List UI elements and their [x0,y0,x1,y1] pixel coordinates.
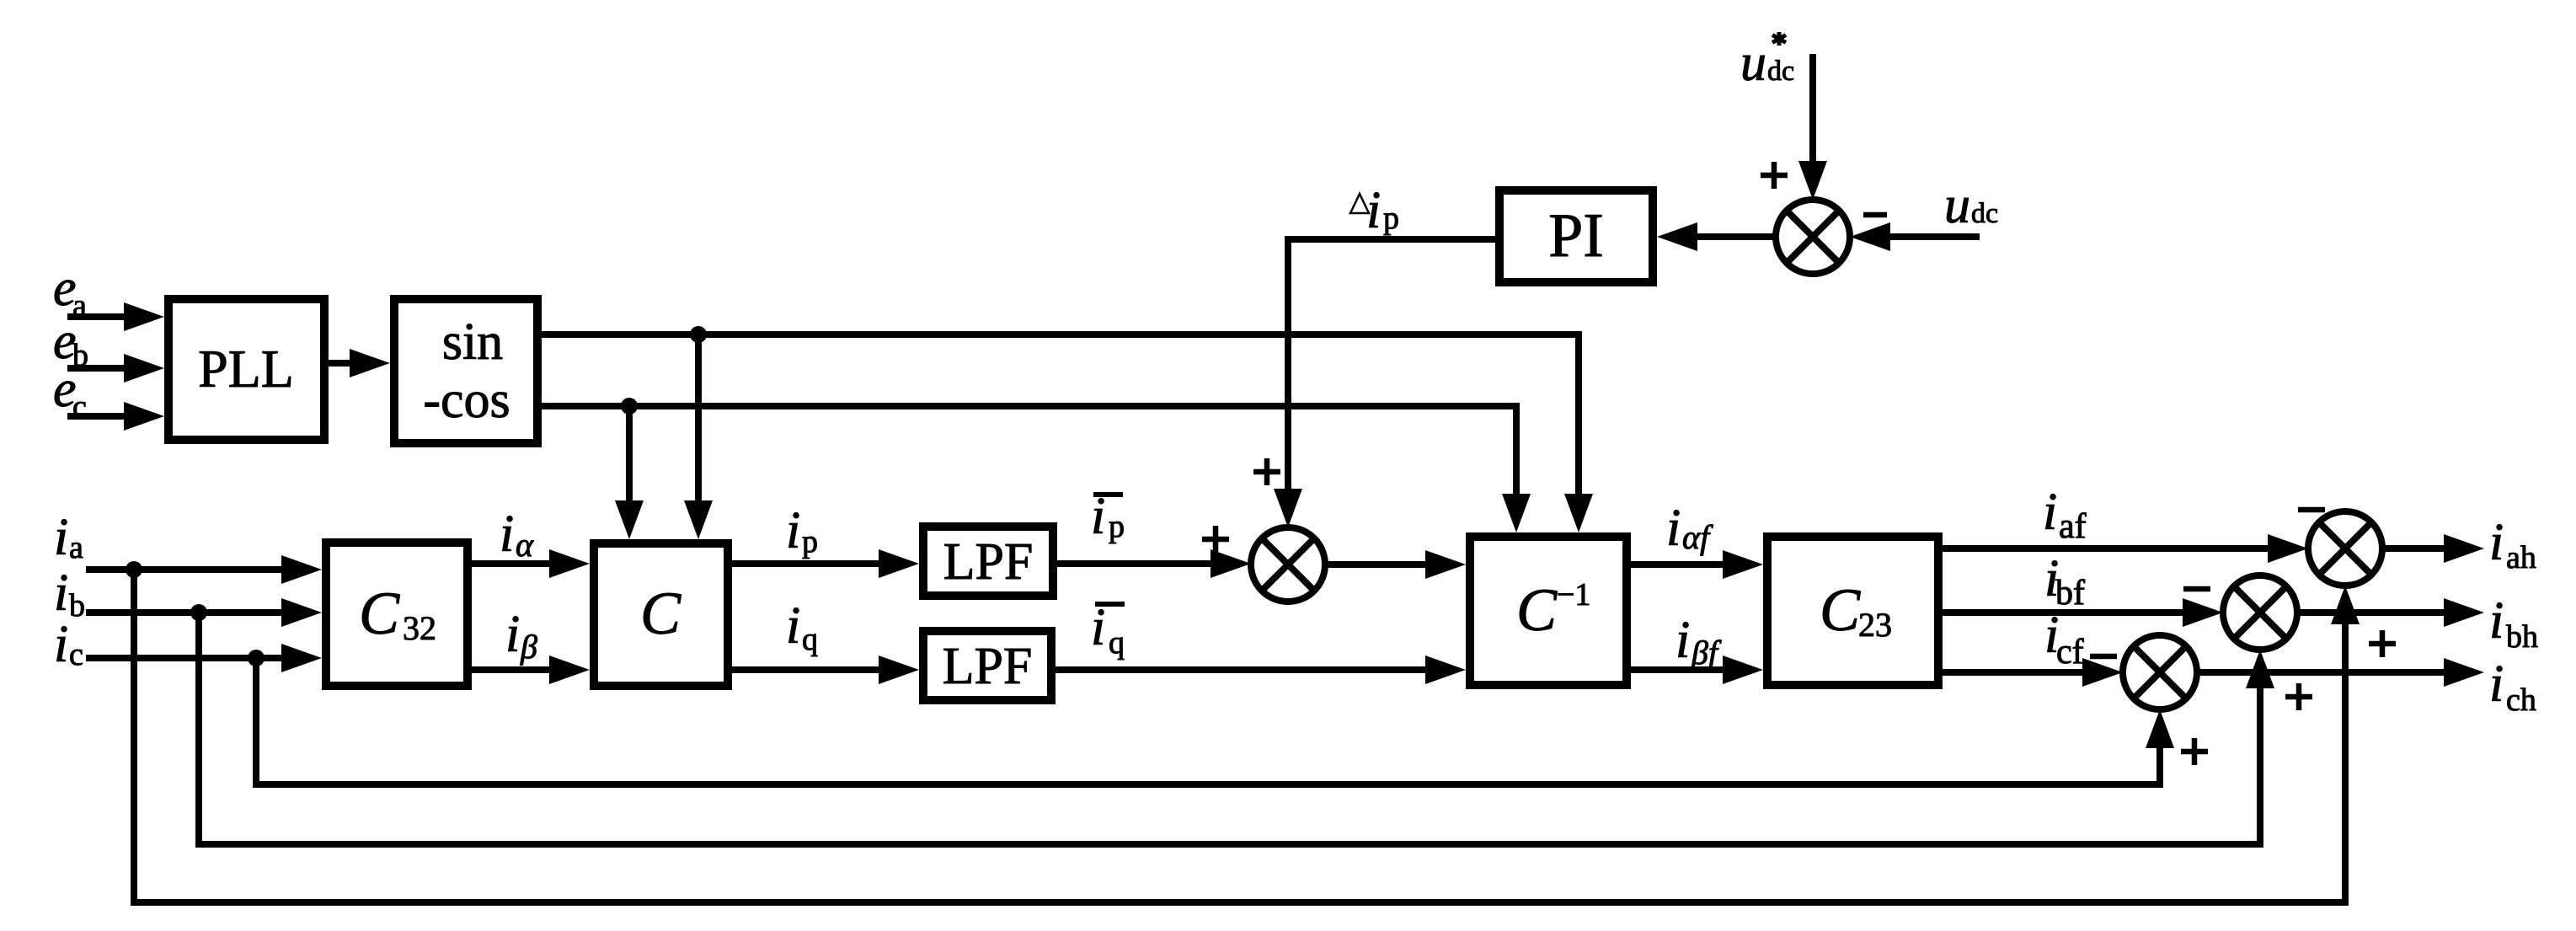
node ec label [53,361,87,425]
wire iq-bar to C-inv [1056,655,1466,684]
minus sign mixer ch [2090,654,2117,660]
wire i-alpha [472,549,590,578]
svg-text:PI: PI [1548,201,1604,270]
svg-text:αf: αf [1682,518,1713,556]
svg-text:b: b [69,588,85,623]
svg-text:-cos: -cos [423,372,510,429]
node iah label [2489,514,2536,575]
svg-text:β: β [520,628,537,666]
svg-text:p: p [1383,201,1399,236]
svg-text:i: i [54,509,68,566]
wire sin drop to C [684,334,713,539]
node iaf label [2043,484,2087,546]
wire icf to mixer ch [1943,658,2123,687]
summing junction mixer bh [2223,575,2297,650]
wire cos drop to C [615,406,644,539]
node ia label [54,509,83,566]
wire i-alpha-f [1631,550,1763,579]
wire PLL to sin-cos [329,349,390,377]
wire ic input [86,644,322,672]
svg-text:LPF: LPF [943,533,1034,591]
wire iah output [2382,534,2484,563]
svg-text:C: C [359,580,400,647]
svg-text:−1: −1 [1557,577,1590,613]
svg-text:p: p [802,524,818,559]
wire ip [732,549,919,578]
wire ia feedback loop [134,570,2360,902]
wire udc-ref drop [1798,54,1827,200]
wire ic feedback loop [256,658,2174,784]
svg-text:i: i [2489,592,2504,650]
node iq-bar label [1091,599,1125,661]
node i-alpha label [500,506,534,564]
node udc label [1944,177,1998,234]
svg-text:i: i [505,606,520,663]
svg-text:bh: bh [2506,619,2538,655]
svg-text:i: i [1366,182,1381,239]
node ibf label [2044,550,2085,613]
node junction dot ib [190,604,207,621]
svg-text:q: q [1109,625,1125,661]
svg-text:i: i [786,502,800,559]
wire iq [732,655,919,684]
svg-text:i: i [786,597,800,655]
plus sign at mixer ah bottom [2369,630,2396,657]
node ip label [786,502,818,559]
plus sign at mixer ch bottom [2181,738,2208,765]
svg-text:C: C [1516,576,1558,644]
svg-text:i: i [2489,655,2504,713]
block LPF lower [923,631,1051,700]
svg-text:PLL: PLL [198,339,294,399]
svg-text:i: i [500,506,514,563]
wire ip-bar to mixer1 [1057,549,1251,578]
svg-text:sin: sin [442,313,503,371]
node eb label [53,313,88,373]
svg-text:βf: βf [1691,634,1722,671]
wire ec input [67,402,164,431]
svg-text:α: α [516,526,534,564]
wire ib feedback loop [199,613,2274,844]
svg-text:q: q [802,622,818,657]
svg-text:32: 32 [403,609,436,647]
block C23 [1767,537,1938,685]
wire i-beta [472,655,590,684]
node ea label [53,260,87,324]
summing junction udc mixer [1776,200,1850,274]
block sin-cos [394,299,537,443]
wire udc input [1850,222,1980,251]
wire ea input [67,302,164,331]
minus sign mixer bh [2183,586,2210,592]
minus sign mixer ah [2298,507,2325,513]
wire mixer1 to C-inv [1325,550,1466,579]
summing junction mixer ch [2123,635,2197,709]
block PLL [168,299,324,440]
svg-text:i: i [1675,612,1690,669]
svg-text:i: i [54,564,68,622]
node ibh label [2489,592,2538,655]
svg-text:i: i [1091,599,1105,656]
svg-text:bf: bf [2055,574,2085,613]
svg-text:i: i [2043,484,2057,541]
svg-text:cf: cf [2056,633,2084,671]
wire ia input [86,555,322,584]
block C32 [326,543,468,686]
svg-text:a: a [69,530,83,565]
plus sign mixer1 top [1253,458,1280,485]
node delta-ip label [1350,182,1399,239]
svg-text:ch: ch [2506,682,2536,718]
svg-text:c: c [69,637,83,672]
wire eb input [67,354,164,383]
wire delta-ip from PI to mixer1 [1274,239,1495,527]
wire ibf to mixer bh [1943,598,2223,627]
svg-text:p: p [1109,509,1125,544]
svg-text:dc: dc [1767,56,1794,87]
block C-inv [1470,537,1627,685]
svg-text:23: 23 [1858,606,1892,644]
block LPF upper [923,527,1053,596]
node ip-bar label [1091,488,1125,545]
node junction dot cos row [621,398,638,415]
node ib label [54,564,85,623]
svg-text:i: i [1666,500,1681,557]
node junction dot ia [126,561,142,578]
svg-text:ah: ah [2506,540,2536,575]
node junction dot sin row [690,326,707,343]
wire ich output [2197,658,2484,687]
svg-text:u: u [1944,177,1970,234]
plus sign mixer1 left [1202,526,1229,553]
svg-text:dc: dc [1971,198,1998,229]
wire udc mixer to PI [1657,222,1776,251]
svg-text:C: C [1820,576,1861,644]
svg-text:i: i [54,616,68,673]
block PI [1499,190,1653,282]
node ich label [2489,655,2536,718]
plus sign at mixer bh bottom [2285,683,2312,710]
svg-text:C: C [640,580,681,647]
node iq label [786,597,818,657]
svg-text:i: i [2489,514,2504,571]
svg-text:LPF: LPF [943,638,1033,695]
wire ib input [86,598,322,627]
node i-beta label [505,606,537,666]
summing junction mixer1 [1251,527,1325,602]
wire i-beta-f [1631,655,1763,684]
node i-beta-f label [1675,612,1722,671]
node junction dot ic [248,650,265,666]
minus sign udc mixer right [1863,212,1887,218]
node udc-ref label [1740,32,1794,92]
plus sign udc mixer top [1761,162,1788,189]
svg-text:u: u [1740,35,1766,92]
wire sin row [542,334,1593,532]
wire cos row [542,406,1531,532]
svg-text:i: i [1091,488,1105,545]
svg-text:af: af [2059,507,2087,546]
summing junction mixer ah [2308,511,2382,586]
node icf label [2044,607,2084,671]
wire iaf to mixer ah [1943,534,2308,563]
block C [594,543,728,686]
node i-alpha-f label [1666,500,1713,557]
wire ibh output [2297,598,2484,627]
node ic label [54,616,83,673]
